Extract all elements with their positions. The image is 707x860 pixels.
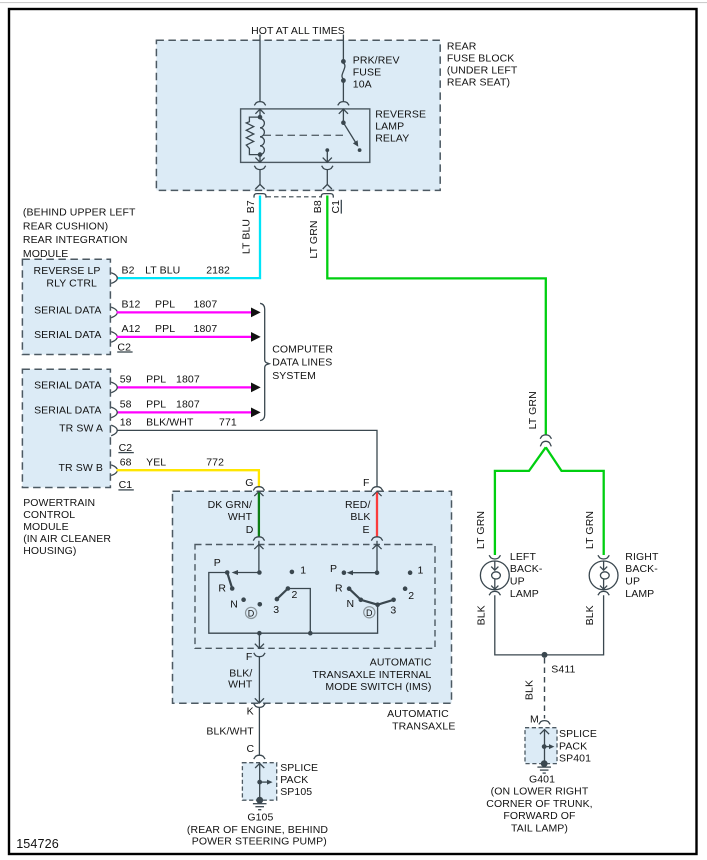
wire LT GRN main xyxy=(327,196,546,435)
right blade to P xyxy=(347,570,377,575)
node splice SP401 xyxy=(542,744,547,749)
svg-text:YEL: YEL xyxy=(146,456,166,468)
svg-text:58: 58 xyxy=(120,399,132,411)
terminal PCM 58 xyxy=(111,407,117,418)
wire BLK/WHT 771 xyxy=(117,430,378,486)
contact right 2 xyxy=(403,586,414,601)
node coil bottom xyxy=(258,152,263,157)
contact left 1 xyxy=(290,565,307,577)
svg-text:SERIAL DATA: SERIAL DATA xyxy=(34,379,101,391)
svg-text:AUTOMATIC: AUTOMATIC xyxy=(370,657,432,669)
pin label 18 row xyxy=(120,417,237,429)
IMS inner box xyxy=(195,545,435,649)
svg-text:REVERSE: REVERSE xyxy=(375,108,426,120)
wire bus down from pivot xyxy=(255,633,264,648)
svg-text:154726: 154726 xyxy=(16,837,59,851)
svg-text:TR SW A: TR SW A xyxy=(59,422,103,434)
svg-text:G: G xyxy=(245,477,253,489)
connector cup relay coil top xyxy=(254,102,265,106)
svg-text:F: F xyxy=(363,477,370,489)
contact right 3 xyxy=(390,598,396,617)
svg-text:(ON LOWER RIGHT: (ON LOWER RIGHT xyxy=(491,786,589,798)
label K xyxy=(247,705,254,717)
brace computer data lines xyxy=(260,303,269,420)
svg-text:AUTOMATIC: AUTOMATIC xyxy=(387,708,449,720)
relay box REVERSE LAMP RELAY xyxy=(241,109,370,162)
svg-text:LEFT: LEFT xyxy=(510,551,537,563)
svg-text:MODULE: MODULE xyxy=(23,248,69,260)
svg-text:59: 59 xyxy=(120,374,132,386)
svg-text:R: R xyxy=(218,583,226,595)
terminal B2 xyxy=(111,273,117,284)
splice pack SP401 box xyxy=(525,728,557,764)
label COMPUTER DATA LINES SYSTEM xyxy=(272,343,333,382)
wire BLK left lamp xyxy=(495,595,545,655)
pin label B12 row xyxy=(122,299,218,311)
svg-text:K: K xyxy=(247,705,254,717)
contact relay NO xyxy=(358,148,362,152)
left blade P-R xyxy=(227,573,232,589)
connector cup G xyxy=(253,487,264,491)
contact left R xyxy=(218,583,234,595)
left blade to P xyxy=(232,570,260,575)
svg-text:WHT: WHT xyxy=(228,679,253,691)
svg-text:2: 2 xyxy=(292,589,298,601)
port label SERIAL DATA 4 xyxy=(34,404,101,416)
svg-text:SP401: SP401 xyxy=(559,752,591,764)
svg-text:68: 68 xyxy=(120,456,132,468)
pin label 59 row xyxy=(120,374,200,386)
splice SP105 entry arrow xyxy=(255,763,264,800)
label E terminal xyxy=(362,524,369,536)
connector cup below relay coil xyxy=(254,166,265,170)
terminal PCM TR SW B xyxy=(111,465,117,476)
module PCM box xyxy=(22,369,110,487)
left switch frame wiring xyxy=(209,573,378,634)
rear fuse block box xyxy=(156,40,440,190)
diagram number 154726 xyxy=(16,837,59,851)
svg-text:D: D xyxy=(366,608,373,618)
wire BLK dashed to M xyxy=(544,658,546,719)
svg-text:M: M xyxy=(530,714,539,726)
label D terminal xyxy=(246,524,254,536)
svg-text:3: 3 xyxy=(390,605,396,617)
svg-text:BLK/WHT: BLK/WHT xyxy=(146,417,194,429)
svg-text:TR SW B: TR SW B xyxy=(59,462,103,474)
relay output arrow xyxy=(323,150,332,162)
svg-text:1: 1 xyxy=(418,565,424,577)
pin label 58 row xyxy=(120,399,200,411)
svg-text:772: 772 xyxy=(206,456,224,468)
arrow at outer box bottom xyxy=(255,698,264,703)
svg-text:PPL: PPL xyxy=(146,399,166,411)
terminal B8 chevron xyxy=(323,184,332,189)
svg-text:POWER STEERING PUMP): POWER STEERING PUMP) xyxy=(192,835,327,847)
port label TR SW A xyxy=(59,422,103,434)
lamp left back-up xyxy=(480,555,509,595)
pin label 68 row xyxy=(120,456,224,468)
label rear integration module location xyxy=(23,207,136,260)
wire relay switch out xyxy=(326,170,328,185)
lamp right back-up xyxy=(589,555,618,595)
svg-text:P: P xyxy=(214,557,221,569)
svg-text:CORNER OF TRUNK,: CORNER OF TRUNK, xyxy=(486,798,592,810)
pin label B8 xyxy=(312,200,324,213)
wire serial data 58 PPL xyxy=(117,408,261,418)
contact left 2 xyxy=(286,586,298,601)
svg-text:1807: 1807 xyxy=(194,323,218,335)
relay coil winding xyxy=(260,119,264,155)
terminal RIM serial A12 xyxy=(111,332,117,343)
svg-text:A12: A12 xyxy=(122,323,141,335)
wire YEL 772 xyxy=(117,470,259,487)
page top hairline xyxy=(0,2,707,3)
contact left D xyxy=(258,602,263,607)
label PRK/REV FUSE 10A xyxy=(353,55,400,91)
svg-text:RLY CTRL: RLY CTRL xyxy=(46,278,97,290)
svg-text:UP: UP xyxy=(625,576,640,588)
svg-text:TRANSAXLE INTERNAL: TRANSAXLE INTERNAL xyxy=(312,669,431,681)
svg-text:(UNDER LEFT: (UNDER LEFT xyxy=(447,65,518,77)
splice SP105 branch arrow xyxy=(260,780,273,785)
svg-text:UP: UP xyxy=(510,576,525,588)
svg-text:F: F xyxy=(246,651,253,663)
left 2-contact branch xyxy=(288,589,310,634)
svg-text:B2: B2 xyxy=(122,264,135,276)
label M xyxy=(530,714,539,726)
relay coil output arrow xyxy=(255,155,264,163)
wire label BLK/WHT ims xyxy=(228,668,253,691)
svg-text:771: 771 xyxy=(219,417,237,429)
node splice SP105 xyxy=(257,780,262,785)
svg-text:RELAY: RELAY xyxy=(375,133,409,145)
svg-text:LAMP: LAMP xyxy=(510,588,539,600)
wire label BLK right xyxy=(584,605,596,625)
label SPLICE PACK SP105 xyxy=(280,762,318,798)
contact left 3 xyxy=(273,597,279,616)
node bus mid xyxy=(308,631,313,636)
node bus left xyxy=(257,631,262,636)
svg-text:SERIAL DATA: SERIAL DATA xyxy=(34,304,101,316)
module RIM box xyxy=(22,259,110,354)
svg-text:1: 1 xyxy=(300,565,306,577)
splice pack SP105 box xyxy=(242,763,276,801)
svg-text:DK GRN/: DK GRN/ xyxy=(208,499,252,511)
wire fuse to relay xyxy=(342,83,344,102)
connector label C1 xyxy=(330,200,342,214)
svg-text:(REAR OF ENGINE, BEHIND: (REAR OF ENGINE, BEHIND xyxy=(187,824,328,836)
label G401 xyxy=(529,774,555,786)
svg-text:MODULE: MODULE xyxy=(23,521,69,533)
svg-text:(IN AIR CLEANER: (IN AIR CLEANER xyxy=(23,533,111,545)
svg-text:C1: C1 xyxy=(330,200,342,214)
connector cup below relay switch xyxy=(322,166,333,170)
svg-text:N: N xyxy=(347,598,355,610)
terminal RIM serial B12 xyxy=(111,307,117,318)
wire BLK right lamp xyxy=(545,595,604,655)
svg-text:WHT: WHT xyxy=(228,511,253,523)
label G105 location xyxy=(187,824,328,848)
label RIGHT BACK-UP LAMP xyxy=(625,551,659,600)
pin label B7 xyxy=(245,200,257,213)
terminal F chevron xyxy=(372,492,381,497)
wire hot feed left xyxy=(259,35,261,102)
svg-text:BLK: BLK xyxy=(584,605,596,625)
wire label DK GRN/WHT xyxy=(208,499,253,523)
svg-text:B7: B7 xyxy=(245,200,257,213)
svg-text:COMPUTER: COMPUTER xyxy=(272,343,333,355)
wire serial data 59 PPL xyxy=(117,383,261,393)
contact right D xyxy=(375,602,380,607)
svg-text:REVERSE LP: REVERSE LP xyxy=(34,265,101,277)
svg-text:PRK/REV: PRK/REV xyxy=(353,55,400,67)
svg-text:FUSE: FUSE xyxy=(353,67,381,79)
wire D to pivot xyxy=(258,541,260,573)
svg-text:REAR SEAT): REAR SEAT) xyxy=(447,77,510,89)
svg-text:B8: B8 xyxy=(312,200,324,213)
label F terminal top xyxy=(363,477,370,489)
svg-text:FUSE BLOCK: FUSE BLOCK xyxy=(447,52,515,64)
svg-text:PPL: PPL xyxy=(146,374,166,386)
connector cup E xyxy=(371,537,382,541)
svg-text:DATA LINES: DATA LINES xyxy=(272,357,332,369)
wire F to K xyxy=(258,657,260,703)
contact relay output xyxy=(325,148,329,152)
svg-text:PPL: PPL xyxy=(155,299,175,311)
connector label C2 RIM xyxy=(117,341,132,353)
label REVERSE LAMP RELAY xyxy=(375,108,426,144)
wire label LT BLU vertical xyxy=(241,219,253,254)
splice SP401 entry arrow xyxy=(540,730,549,764)
svg-text:LT BLU: LT BLU xyxy=(145,264,180,276)
svg-text:3: 3 xyxy=(273,604,279,616)
label AUTOMATIC TRANSAXLE xyxy=(387,708,455,732)
splice SP401 branch arrow xyxy=(544,744,554,749)
contact right R xyxy=(335,583,351,595)
wire E to pivot xyxy=(376,541,378,573)
terminal PCM TR SW A xyxy=(111,425,117,436)
svg-text:REAR INTEGRATION: REAR INTEGRATION xyxy=(23,234,128,246)
svg-text:FORWARD OF: FORWARD OF xyxy=(503,810,575,822)
wire label BLK dashed xyxy=(524,680,536,700)
port label REVERSE LP RLY CTRL xyxy=(34,265,101,290)
wire serial data B12 PPL xyxy=(117,308,261,318)
svg-text:TAIL LAMP): TAIL LAMP) xyxy=(511,822,568,834)
svg-text:BLK: BLK xyxy=(475,605,487,625)
svg-text:1807: 1807 xyxy=(194,299,218,311)
label G terminal xyxy=(245,477,253,489)
connector cup M xyxy=(539,721,550,725)
svg-text:B12: B12 xyxy=(122,299,141,311)
label F bottom xyxy=(246,651,253,663)
svg-text:LAMP: LAMP xyxy=(625,588,654,600)
svg-text:SPLICE: SPLICE xyxy=(559,728,597,740)
svg-text:RED/: RED/ xyxy=(345,499,371,511)
wire DK GRN/WHT xyxy=(258,493,260,537)
ground G105 xyxy=(253,797,267,810)
connector hump B8 xyxy=(321,194,333,198)
svg-text:N: N xyxy=(230,598,238,610)
svg-text:(BEHIND UPPER LEFT: (BEHIND UPPER LEFT xyxy=(23,207,136,219)
svg-text:1807: 1807 xyxy=(176,399,200,411)
contact right P xyxy=(330,563,346,575)
svg-text:HOUSING): HOUSING) xyxy=(23,545,76,557)
svg-text:2182: 2182 xyxy=(206,264,230,276)
left blade 3-2 xyxy=(277,589,288,600)
svg-text:SERIAL DATA: SERIAL DATA xyxy=(34,404,101,416)
node right pivot xyxy=(375,570,380,575)
svg-text:E: E xyxy=(362,524,369,536)
label G401 location xyxy=(486,786,592,835)
connector label C2 PCM xyxy=(118,442,133,454)
label S411 xyxy=(551,664,575,676)
connector cup F top xyxy=(371,487,382,491)
connector label C1 PCM xyxy=(118,479,133,491)
svg-text:PACK: PACK xyxy=(559,740,587,752)
wire label RED/BLK xyxy=(345,499,371,523)
label SPLICE PACK SP401 xyxy=(559,728,597,764)
wire serial data A12 PPL xyxy=(117,332,261,342)
wire label LT GRN left xyxy=(475,511,487,549)
svg-text:2: 2 xyxy=(408,590,414,602)
connector cup C xyxy=(254,755,265,759)
wire label LT GRN vertical top xyxy=(308,220,320,258)
wire LT GRN split xyxy=(495,447,604,555)
module IMS outer box xyxy=(173,491,452,703)
label AUTOMATIC TRANSAXLE INTERNAL MODE SWITCH (IMS) xyxy=(312,657,431,693)
connector hump B7 xyxy=(254,194,266,198)
svg-text:REAR CUSHION): REAR CUSHION) xyxy=(23,221,108,233)
arrow into inner box left xyxy=(254,545,263,550)
svg-text:LT GRN: LT GRN xyxy=(475,511,487,549)
terminal PCM 59 xyxy=(111,382,117,393)
svg-text:MODE SWITCH (IMS): MODE SWITCH (IMS) xyxy=(325,681,431,693)
resistor relay coil shunt xyxy=(246,117,260,155)
svg-text:BACK-: BACK- xyxy=(625,563,658,575)
node relay switch pivot xyxy=(341,120,346,125)
wire relay coil out xyxy=(259,170,261,185)
ground G401 xyxy=(537,760,551,773)
svg-text:LT GRN: LT GRN xyxy=(308,220,320,258)
wire label LT GRN right xyxy=(584,511,596,549)
svg-text:REAR: REAR xyxy=(447,40,477,52)
wire label BLK/WHT lower xyxy=(206,726,254,738)
svg-text:BLK/WHT: BLK/WHT xyxy=(206,726,254,738)
contact left P xyxy=(214,557,230,575)
pin label B2 row xyxy=(122,264,231,276)
svg-text:LT GRN: LT GRN xyxy=(527,391,539,429)
wire label BLK left xyxy=(475,605,487,625)
label powertrain control module location xyxy=(23,497,111,557)
svg-text:LT GRN: LT GRN xyxy=(584,511,596,549)
svg-text:POWERTRAIN: POWERTRAIN xyxy=(23,497,95,509)
arrow into inner box right xyxy=(372,545,381,550)
svg-text:SERIAL DATA: SERIAL DATA xyxy=(34,329,101,341)
node left pivot xyxy=(257,570,262,575)
svg-text:G401: G401 xyxy=(529,774,555,786)
wire RED/BLK xyxy=(376,493,378,537)
wire label LT GRN mid xyxy=(527,391,539,429)
svg-text:PPL: PPL xyxy=(155,323,175,335)
label REAR FUSE BLOCK (UNDER LEFT REAR SEAT) xyxy=(447,40,518,88)
connector cup D xyxy=(253,537,264,541)
svg-text:SPLICE: SPLICE xyxy=(280,762,318,774)
svg-text:G105: G105 xyxy=(247,812,273,824)
svg-text:P: P xyxy=(330,563,337,575)
svg-text:D: D xyxy=(246,524,254,536)
svg-text:RIGHT: RIGHT xyxy=(625,551,659,563)
svg-text:D: D xyxy=(248,609,255,619)
label C xyxy=(247,743,255,755)
port label SERIAL DATA 3 xyxy=(34,379,101,391)
mechanical link dashes xyxy=(264,134,347,136)
node coil top xyxy=(258,115,263,120)
svg-text:C: C xyxy=(247,743,255,755)
right blade R-N-D-3 xyxy=(349,589,394,605)
wire hot feed right xyxy=(342,35,344,62)
circled D right xyxy=(364,607,375,618)
relay switch blade xyxy=(343,123,358,147)
terminal G chevron xyxy=(254,492,263,497)
connector cup F bottom xyxy=(254,653,265,657)
svg-text:SYSTEM: SYSTEM xyxy=(272,370,316,382)
svg-text:10A: 10A xyxy=(353,79,372,91)
contact right 1 xyxy=(408,565,424,577)
svg-text:SP105: SP105 xyxy=(280,786,312,798)
port label TR SW B xyxy=(59,462,103,474)
pin label A12 row xyxy=(122,323,218,335)
svg-text:PACK: PACK xyxy=(280,774,308,786)
wire K to C xyxy=(258,708,260,756)
wire LT BLU 2182 xyxy=(117,196,260,279)
label G105 xyxy=(247,812,273,824)
svg-text:TRANSAXLE: TRANSAXLE xyxy=(392,720,455,732)
contact right N xyxy=(347,598,364,611)
connector cup relay switch top xyxy=(338,102,349,106)
svg-text:LAMP: LAMP xyxy=(375,120,404,132)
svg-text:BACK-: BACK- xyxy=(510,563,543,575)
svg-text:S411: S411 xyxy=(551,664,575,676)
svg-text:LT BLU: LT BLU xyxy=(241,219,253,254)
svg-text:HOT AT ALL TIMES: HOT AT ALL TIMES xyxy=(251,25,345,37)
connector double arcs LT GRN xyxy=(540,435,551,447)
label HOT AT ALL TIMES xyxy=(251,25,345,37)
splice node S411 xyxy=(542,652,548,658)
svg-text:BLK: BLK xyxy=(350,511,370,523)
fuse PRK/REV 10A xyxy=(341,59,346,83)
svg-text:1807: 1807 xyxy=(176,374,200,386)
port label SERIAL DATA 2 xyxy=(34,329,101,341)
svg-text:18: 18 xyxy=(120,417,132,429)
svg-text:CONTROL: CONTROL xyxy=(23,509,75,521)
terminal B7 chevron xyxy=(255,184,264,189)
svg-text:BLK: BLK xyxy=(524,680,536,700)
label LEFT BACK-UP LAMP xyxy=(510,551,543,600)
relay switch input arrow xyxy=(339,109,348,123)
svg-text:R: R xyxy=(335,583,343,595)
connector cup K xyxy=(254,704,265,708)
relay coil input arrow xyxy=(255,109,264,117)
circled D left xyxy=(246,607,257,618)
connector C1 dashed link xyxy=(267,196,321,198)
port label SERIAL DATA 1 xyxy=(34,304,101,316)
contact left N xyxy=(230,597,246,610)
